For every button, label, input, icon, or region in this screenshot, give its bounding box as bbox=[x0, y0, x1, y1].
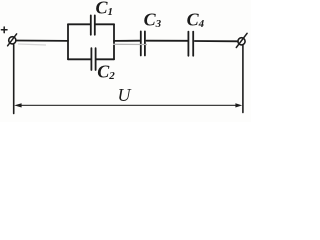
svg-text:4: 4 bbox=[198, 18, 205, 30]
wire C4 to right terminal bbox=[195, 40, 238, 42]
wire top branch left bbox=[68, 23, 90, 25]
right extension line down from terminal bbox=[242, 45, 244, 112]
wire top branch right bbox=[95, 23, 114, 25]
capacitor C2 bbox=[91, 48, 95, 70]
wire left terminal to parallel block bbox=[16, 40, 68, 42]
node: parallel block left vertical bbox=[67, 24, 69, 59]
right terminal slash bbox=[236, 33, 247, 47]
scan shadow under middle wire bbox=[113, 43, 147, 45]
node: parallel block right vertical bbox=[113, 24, 115, 59]
plus polarity mark bbox=[1, 27, 7, 33]
wire bottom branch right bbox=[96, 58, 114, 60]
capacitor C1 bbox=[91, 15, 95, 34]
wire bottom branch left bbox=[68, 58, 91, 60]
svg-text:1: 1 bbox=[108, 6, 114, 18]
right arrowhead bbox=[235, 103, 242, 107]
left arrowhead bbox=[14, 103, 21, 107]
left terminal slash bbox=[8, 34, 17, 46]
capacitor C4 bbox=[188, 32, 193, 56]
svg-text:3: 3 bbox=[155, 18, 162, 30]
left extension line down from terminal bbox=[13, 45, 15, 114]
wire C3 to C4 bbox=[146, 40, 187, 42]
dimension line U bbox=[20, 104, 238, 106]
capacitor C3 bbox=[141, 31, 145, 55]
svg-text:2: 2 bbox=[108, 70, 115, 82]
wire block to C3 bbox=[114, 40, 140, 42]
left terminal bbox=[9, 37, 16, 44]
svg-text:U: U bbox=[118, 85, 132, 105]
scan shadow under left wire bbox=[18, 44, 46, 45]
right terminal bbox=[238, 38, 245, 45]
